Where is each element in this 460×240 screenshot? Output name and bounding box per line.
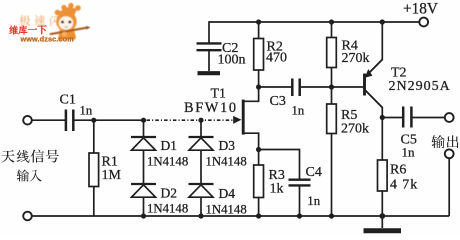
wire R5 bottom — [331, 134, 333, 217]
label +18V — [403, 0, 438, 17]
junction dot D3 top — [198, 118, 203, 123]
label R2 — [267, 40, 283, 55]
junction dot R5 bottom — [329, 213, 334, 218]
label T2 type 2N2905A — [389, 79, 451, 94]
svg-text:D3: D3 — [219, 138, 236, 153]
svg-text:D2: D2 — [161, 185, 178, 200]
wire source node to R3 — [258, 150, 260, 166]
label R6 value 4.7k — [390, 178, 418, 193]
label D2 value 1N4148 — [147, 202, 188, 216]
diode D4 — [189, 184, 214, 197]
wire node to R5 — [331, 87, 333, 104]
label D3 — [219, 138, 236, 153]
wire C1 to R1 node — [74, 119, 143, 121]
label R1 — [102, 155, 118, 170]
label D1 — [161, 138, 178, 153]
label C2 value 100n — [218, 53, 246, 68]
label input 天线信号 — [1, 149, 59, 162]
wire dashed gate line — [147, 119, 234, 121]
svg-text:270k: 270k — [342, 51, 370, 66]
svg-text:C1: C1 — [60, 93, 76, 108]
wire D4 bottom stub — [200, 197, 202, 216]
resistor R6 — [378, 160, 388, 191]
junction dot R3 bottom — [256, 213, 261, 218]
label C3 — [270, 94, 286, 109]
svg-text:C4: C4 — [306, 165, 322, 180]
ground symbol — [364, 216, 402, 231]
wire R4 top stub — [331, 22, 333, 38]
svg-text:1N4148: 1N4148 — [147, 154, 188, 168]
wire R6 bottom stub — [381, 191, 383, 216]
svg-text:C3: C3 — [270, 94, 286, 109]
node R2/C3/T1-drain — [256, 84, 261, 89]
svg-text:4 7k: 4 7k — [390, 178, 418, 193]
svg-text:270k: 270k — [341, 122, 369, 137]
wire R2 top stub — [258, 22, 260, 39]
wire R4 bottom stub — [331, 68, 333, 88]
label C1 value 1n — [80, 104, 93, 118]
wire input to C1 — [32, 119, 65, 121]
junction dot ground node — [379, 213, 385, 219]
diode D1 — [131, 137, 156, 150]
wire collector to C5 — [382, 117, 402, 119]
label R5 — [341, 108, 357, 123]
label C5 — [401, 133, 417, 148]
wire source node to C4 — [259, 150, 300, 180]
svg-text:BFW10: BFW10 — [184, 100, 238, 116]
svg-text:www.dzsc.com: www.dzsc.com — [20, 34, 75, 43]
label T2 — [391, 66, 407, 81]
label R1 value 1M — [102, 168, 122, 183]
junction dot C4 bottom — [297, 213, 302, 218]
label R3 — [269, 168, 285, 183]
junction dot R2 top — [256, 19, 261, 24]
watermark logo weiku/dzsc.com — [9, 3, 90, 43]
node T2 collector junction — [380, 115, 385, 120]
capacitor C5 — [403, 107, 411, 128]
capacitor C3 — [292, 79, 299, 97]
input terminal bottom — [23, 212, 32, 221]
svg-text:1n: 1n — [307, 194, 320, 208]
resistor R1 — [89, 120, 99, 216]
svg-text:1N4148: 1N4148 — [206, 155, 247, 169]
resistor R3 — [254, 165, 264, 198]
transistor T2 collector — [366, 91, 383, 118]
wire T1 source — [244, 133, 259, 149]
label C1 — [60, 93, 76, 108]
svg-text:1k: 1k — [270, 182, 284, 197]
label R2 value 470 — [266, 51, 287, 66]
output terminal top — [445, 113, 454, 122]
label D3 value 1N4148 — [206, 155, 247, 169]
label D1 value 1N4148 — [147, 154, 188, 168]
wire D3-D4 — [200, 150, 202, 184]
wire R2 bottom stub — [258, 70, 260, 87]
wire C2 branch from rail — [208, 21, 210, 43]
transistor T1 channel bar — [242, 100, 245, 135]
node T1 source junction — [256, 147, 261, 152]
resistor R5 — [327, 104, 337, 134]
wire bottom rail — [32, 215, 449, 217]
capacitor C2 — [197, 43, 222, 71]
label T1 — [211, 87, 227, 102]
label T1 type BFW10 — [184, 100, 238, 116]
transistor T2 base bar — [363, 74, 366, 96]
junction dot T2 emitter on rail — [380, 19, 385, 24]
label R4 value 270k — [342, 51, 370, 66]
junction dot D2 bottom — [141, 213, 146, 218]
junction dot D4 bottom — [198, 213, 203, 218]
capacitor C4 — [289, 180, 311, 186]
label output 输出 — [431, 135, 458, 148]
junction dot R4 top — [329, 19, 334, 24]
wire C5 to output — [412, 117, 444, 119]
wire collector node to R6 — [381, 118, 383, 161]
svg-text:1N4148: 1N4148 — [206, 203, 247, 217]
label R5 value 270k — [341, 122, 369, 137]
resistor R2 — [254, 39, 264, 71]
diode D3 — [189, 137, 214, 150]
wire C4 bottom stub — [299, 186, 301, 217]
wire C3 to node — [301, 86, 332, 88]
wire R3 bottom stub — [258, 198, 260, 217]
wire D1-D2 — [143, 150, 145, 184]
transistor T2 emitter — [365, 22, 383, 78]
svg-text:1N4148: 1N4148 — [147, 202, 188, 216]
svg-text:D4: D4 — [219, 186, 236, 201]
label C4 value 1n — [307, 194, 320, 208]
power terminal +18V — [419, 18, 428, 27]
wire node to C3 — [259, 86, 292, 88]
svg-text:R6: R6 — [390, 163, 406, 178]
label R6 — [390, 163, 406, 178]
label D2 — [161, 185, 178, 200]
wire D2 bottom stub — [143, 197, 145, 216]
label C4 — [306, 165, 322, 180]
capacitor C1 — [66, 110, 73, 132]
svg-text:470: 470 — [266, 51, 287, 66]
wire T1 drain — [244, 87, 259, 101]
label C3 value 1n — [292, 104, 305, 118]
svg-text:1M: 1M — [102, 168, 122, 183]
svg-text:D1: D1 — [161, 138, 178, 153]
junction dot D1 top — [141, 118, 146, 123]
input terminal top — [23, 116, 32, 125]
wire top +18V rail — [209, 21, 419, 23]
label D4 value 1N4148 — [206, 203, 247, 217]
label R4 — [342, 39, 358, 54]
label C2 — [222, 41, 238, 56]
label D4 — [219, 186, 236, 201]
wire D3 top stub — [200, 120, 202, 137]
resistor R4 — [327, 38, 337, 68]
wire base to T2 — [332, 86, 364, 88]
label input 输入 — [17, 169, 42, 181]
svg-text:1n: 1n — [292, 104, 305, 118]
wire output bottom to rail — [448, 158, 450, 216]
diode D2 — [131, 184, 156, 197]
label R3 value 1k — [270, 182, 284, 197]
svg-text:+18V: +18V — [403, 0, 438, 17]
ground below C2 — [198, 71, 221, 75]
node R4/R5/C3/base — [329, 84, 334, 89]
svg-text:1n: 1n — [80, 104, 93, 118]
transistor T1 gate arrow — [233, 116, 241, 124]
svg-text:1n: 1n — [402, 145, 416, 160]
output terminal bottom — [445, 149, 454, 158]
junction dot R1 top — [91, 118, 96, 123]
svg-text:2N2905A: 2N2905A — [389, 79, 451, 94]
svg-text:100n: 100n — [218, 53, 246, 68]
wire D1 top stub — [143, 120, 145, 137]
label C5 value 1n — [402, 145, 416, 160]
